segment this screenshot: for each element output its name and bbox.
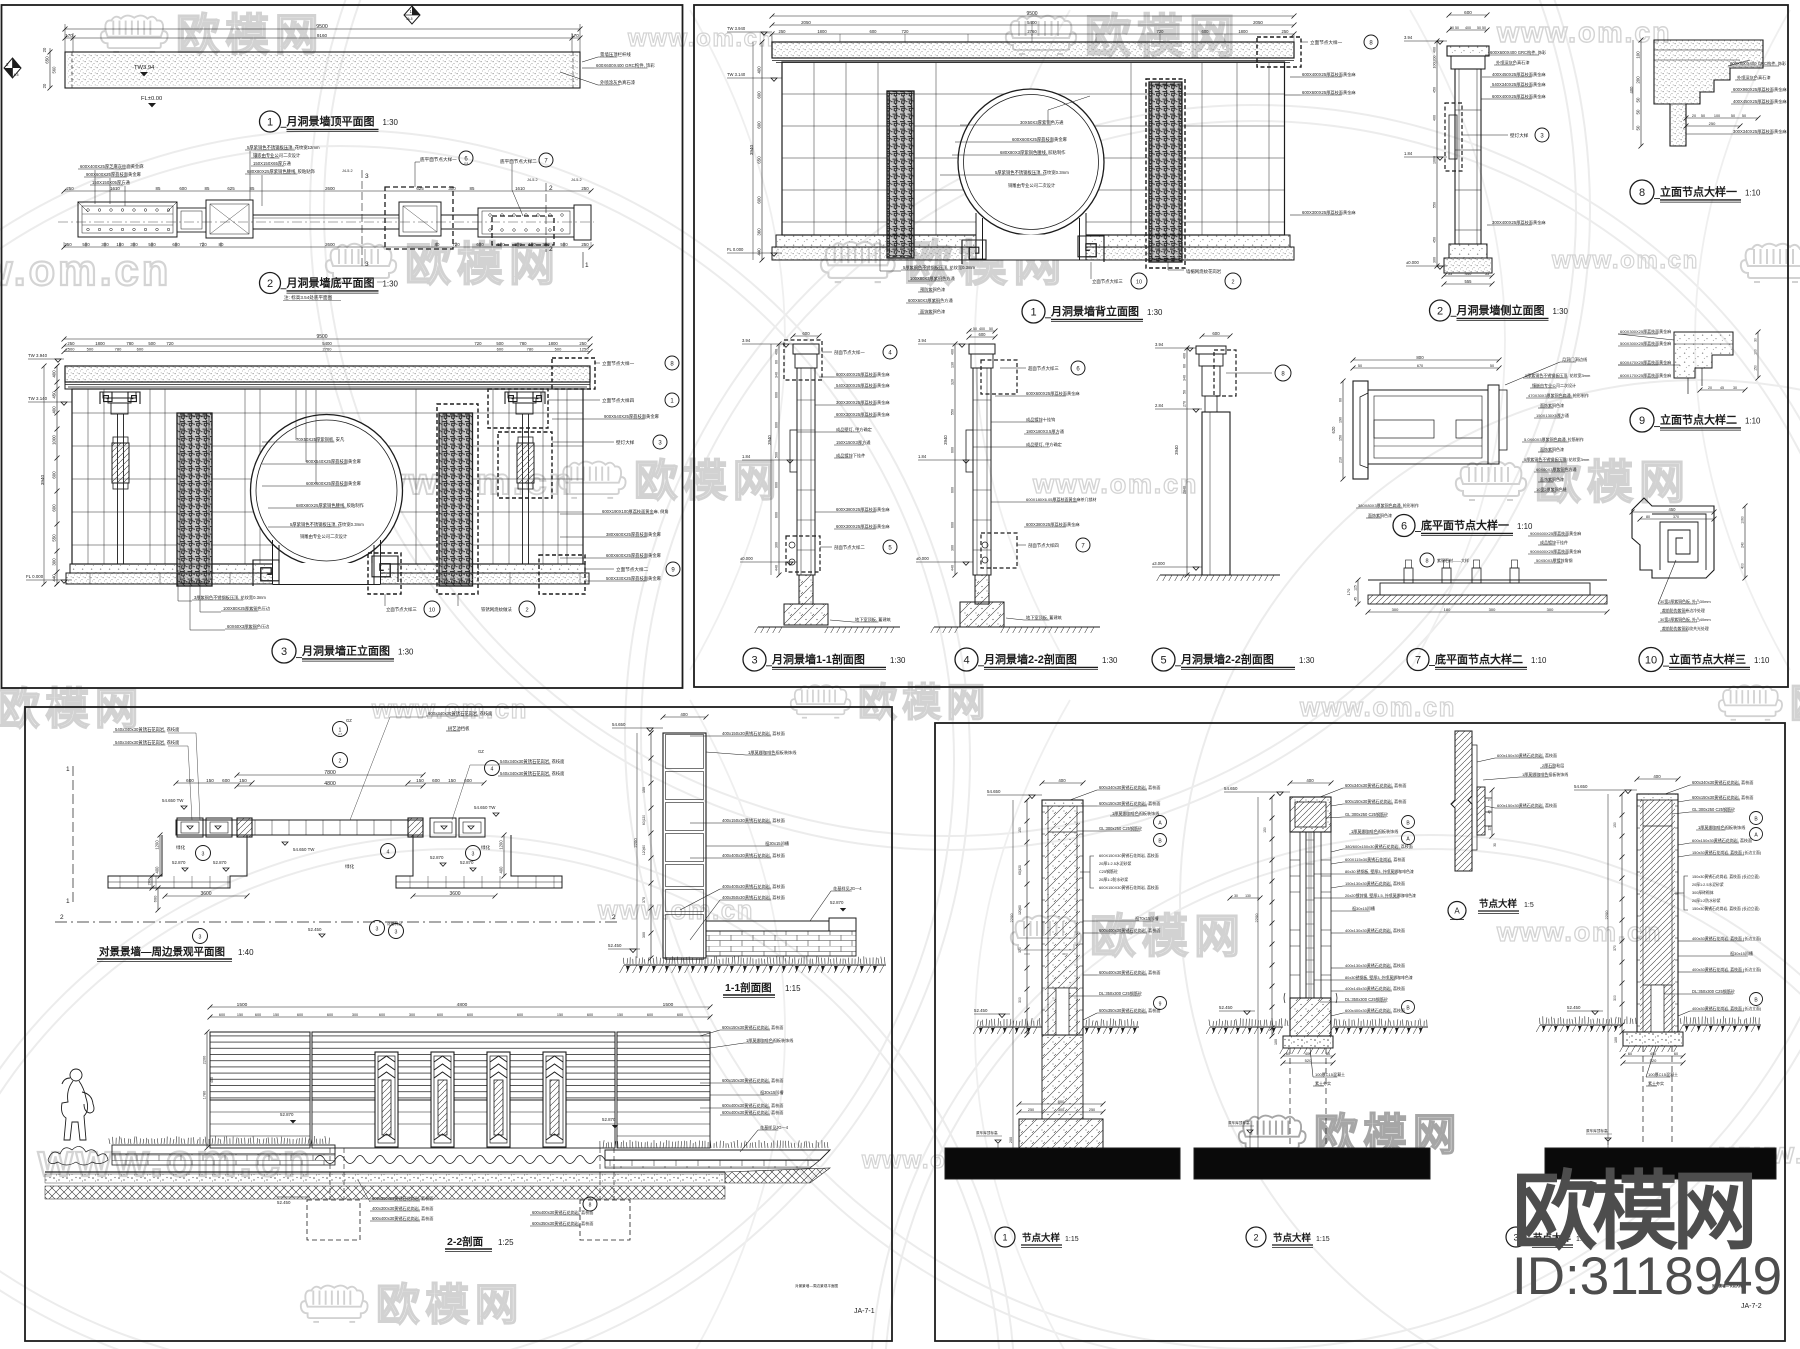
back elevation moon gate xyxy=(976,210,1086,238)
svg-text:300: 300 xyxy=(775,542,779,548)
section 5 left dims xyxy=(1186,348,1188,575)
svg-text:670: 670 xyxy=(1417,364,1423,368)
svg-text:1: 1 xyxy=(66,766,70,773)
svg-text:600: 600 xyxy=(497,346,504,351)
section 4 column xyxy=(969,344,995,354)
svg-text:600: 600 xyxy=(432,778,440,783)
svg-text:400: 400 xyxy=(1306,778,1314,783)
detail 1 left dims xyxy=(1026,800,1028,1035)
svg-text:2: 2 xyxy=(1232,280,1235,286)
detail 2 pad dims xyxy=(1283,1055,1333,1057)
svg-text:600: 600 xyxy=(297,1013,303,1017)
front elevation detail box 2 around right fretwork xyxy=(437,404,478,594)
svg-text:10: 10 xyxy=(1136,280,1142,286)
svg-text:A-5: A-5 xyxy=(14,73,19,77)
svg-text:50: 50 xyxy=(1490,364,1494,368)
svg-text:50: 50 xyxy=(1482,26,1486,30)
svg-text:400x30黄锈石花岗岩, 荔枝面 (长边立面): 400x30黄锈石花岗岩, 荔枝面 (长边立面) xyxy=(1692,967,1762,972)
svg-text:1.84: 1.84 xyxy=(918,454,927,459)
svg-text:立面节点大样三: 立面节点大样三 xyxy=(1092,278,1123,285)
detail 2 steel post xyxy=(1305,832,1307,998)
site plan section cut 2 xyxy=(55,921,620,923)
svg-text:600: 600 xyxy=(437,1013,443,1017)
svg-text:440: 440 xyxy=(52,574,57,582)
svg-text:180: 180 xyxy=(528,242,536,247)
svg-text:80: 80 xyxy=(219,242,224,247)
svg-text:铜雕由专业公司二次设计: 铜雕由专业公司二次设计 xyxy=(1008,182,1056,189)
front elevation base xyxy=(70,564,585,573)
svg-text:30: 30 xyxy=(1493,843,1497,847)
svg-text:300: 300 xyxy=(1489,607,1496,612)
svg-text:GL:300x250 C25钢筋砼: GL:300x250 C25钢筋砼 xyxy=(1099,825,1142,831)
svg-text:180: 180 xyxy=(1444,607,1451,612)
pilaster right shaft xyxy=(522,414,524,564)
moon gate greek key left xyxy=(253,560,279,586)
svg-text:300: 300 xyxy=(1433,257,1437,263)
bottom plan centerline xyxy=(58,221,594,223)
svg-text:150: 150 xyxy=(206,778,214,783)
svg-text:2: 2 xyxy=(60,914,64,921)
svg-text:400: 400 xyxy=(1741,563,1745,569)
svg-text:340: 340 xyxy=(775,372,779,378)
svg-text:120|60: 120|60 xyxy=(642,845,646,855)
side elevation shaft xyxy=(1455,69,1481,244)
svg-text:7: 7 xyxy=(1415,654,1421,666)
svg-text:20厚1:2防水砂浆: 20厚1:2防水砂浆 xyxy=(1099,877,1128,882)
bottom plan right module xyxy=(478,208,574,237)
section 2-2 wall slats upper xyxy=(210,1032,310,1100)
svg-text:300: 300 xyxy=(1392,607,1399,612)
svg-text:月洞景墙正立面图: 月洞景墙正立面图 xyxy=(301,644,390,658)
svg-text:8: 8 xyxy=(1639,187,1645,199)
svg-text:780: 780 xyxy=(115,346,122,351)
front elevation cap xyxy=(65,366,590,382)
svg-text:600x400x30黄锈石花岗岩, 荔枝面: 600x400x30黄锈石花岗岩, 荔枝面 xyxy=(722,1109,783,1115)
detail A wall fragment xyxy=(1451,731,1472,871)
svg-text:250: 250 xyxy=(64,242,72,247)
site plan GZ post left xyxy=(237,818,252,837)
svg-text:450: 450 xyxy=(1669,507,1677,512)
svg-text:130: 130 xyxy=(1245,894,1251,898)
svg-text:1000: 1000 xyxy=(52,435,57,445)
section 5 dashed box xyxy=(1214,350,1236,396)
svg-text:1厚莫娜咖啡色祖板装饰线: 1厚莫娜咖啡色祖板装饰线 xyxy=(1351,828,1398,834)
svg-text:150: 150 xyxy=(237,1013,243,1017)
detail 3 column xyxy=(1637,794,1678,1032)
svg-text:600: 600 xyxy=(870,29,878,34)
side elevation column cap xyxy=(1447,46,1489,56)
detail 3 footing pad xyxy=(1623,1032,1683,1046)
svg-text:30宽2厚紫铜色板, 外凸30mm: 30宽2厚紫铜色板, 外凸30mm xyxy=(1660,599,1711,604)
svg-text:150: 150 xyxy=(416,778,424,783)
svg-text:www.om.cn: www.om.cn xyxy=(1551,247,1699,274)
detail 3 left dims xyxy=(1621,794,1623,1032)
svg-text:600: 600 xyxy=(137,346,144,351)
svg-text:立面节点大样三: 立面节点大样三 xyxy=(386,606,417,613)
svg-text:1:15: 1:15 xyxy=(1065,1236,1079,1243)
svg-text:150x30黄锈石花岗岩, 荔枝面 (长边立面): 150x30黄锈石花岗岩, 荔枝面 (长边立面) xyxy=(1692,906,1760,911)
detail 2 mid dims xyxy=(1230,897,1260,899)
svg-text:52.450: 52.450 xyxy=(308,927,322,932)
svg-text:52.870: 52.870 xyxy=(280,1112,294,1117)
svg-text:3: 3 xyxy=(199,935,202,941)
svg-text:600x350x30黄锈石花岗岩, 荔枝面: 600x350x30黄锈石花岗岩, 荔枝面 xyxy=(532,1220,593,1226)
bottom plan wall line a xyxy=(253,214,399,216)
svg-text:100: 100 xyxy=(1274,1039,1278,1045)
svg-text:30宽2厚紫铜色板, 外凸40mm: 30宽2厚紫铜色板, 外凸40mm xyxy=(1660,617,1711,622)
svg-text:60: 60 xyxy=(1326,1052,1330,1056)
section 4 lamp xyxy=(966,430,973,472)
svg-text:1: 1 xyxy=(1002,1233,1007,1243)
svg-text:270: 270 xyxy=(1183,401,1187,407)
site plan ref circle mid xyxy=(370,921,385,936)
svg-text:600: 600 xyxy=(951,487,955,493)
svg-text:500: 500 xyxy=(82,242,90,247)
svg-text:3.94: 3.94 xyxy=(1404,35,1413,40)
svg-text:600x400x30黄锈石花岗岩, 荔枝面: 600x400x30黄锈石花岗岩, 荔枝面 xyxy=(1345,1007,1405,1013)
bottom plan wall line b xyxy=(441,214,478,216)
svg-text:DL:350x300 C25钢筋砼: DL:350x300 C25钢筋砼 xyxy=(1345,996,1388,1002)
svg-text:www.om.cn: www.om.cn xyxy=(1299,694,1456,722)
back elevation greek key left xyxy=(962,240,986,264)
svg-text:立面节点大样一: 立面节点大样一 xyxy=(1310,39,1343,46)
svg-text:1200: 1200 xyxy=(499,840,504,850)
svg-text:150x30黄锈石花岗岩, 荔枝面 (长边立面): 150x30黄锈石花岗岩, 荔枝面 (长边立面) xyxy=(1692,850,1762,855)
section 2-2 planter left xyxy=(109,1136,330,1144)
svg-text:120: 120 xyxy=(1488,825,1492,831)
section 2-2 planter right xyxy=(600,1140,828,1148)
svg-text:www.om.cn: www.om.cn xyxy=(1496,17,1671,49)
svg-text:55: 55 xyxy=(1485,271,1490,276)
svg-text:400x30黄锈石花岗岩, 荔枝面 (长边立面): 400x30黄锈石花岗岩, 荔枝面 (长边立面) xyxy=(1692,936,1762,941)
svg-text:600: 600 xyxy=(775,482,779,488)
svg-text:600x150x30黄锈石花岗岩, 荔枝面: 600x150x30黄锈石花岗岩, 荔枝面 xyxy=(1497,752,1557,758)
svg-text:面饰紫铜色漆: 面饰紫铜色漆 xyxy=(1540,446,1564,452)
detail 2 ground right xyxy=(1330,1018,1427,1026)
front elevation left dims xyxy=(56,366,58,584)
svg-text:3: 3 xyxy=(365,173,369,180)
svg-text:50: 50 xyxy=(1742,114,1746,118)
svg-text:2: 2 xyxy=(1253,1233,1258,1243)
svg-text:底平面节点大样二: 底平面节点大样二 xyxy=(1435,652,1523,666)
svg-text:素土夯实: 素土夯实 xyxy=(1315,1080,1331,1086)
bottom plan bottom dims xyxy=(64,246,591,248)
side elevation base xyxy=(1449,244,1487,258)
svg-text:340: 340 xyxy=(1183,375,1187,381)
svg-text:300厚砖砌体: 300厚砖砌体 xyxy=(1692,890,1714,895)
svg-text:250: 250 xyxy=(67,341,75,346)
svg-text:400: 400 xyxy=(951,349,955,355)
top plan dim 9160 xyxy=(65,37,580,39)
section 5 column xyxy=(1202,412,1230,575)
svg-text:2: 2 xyxy=(1437,305,1443,317)
svg-text:TW 3.940: TW 3.940 xyxy=(727,26,746,31)
svg-text:月洞景墙2-2剖面图: 月洞景墙2-2剖面图 xyxy=(983,652,1077,666)
svg-text:400: 400 xyxy=(52,370,57,378)
svg-text:320: 320 xyxy=(951,379,955,385)
svg-text:600: 600 xyxy=(467,1013,473,1017)
detail 1 ground left xyxy=(977,1018,1040,1026)
detail 6 left dims xyxy=(1342,381,1344,479)
svg-text:600X150X30黄锈石花岗岩, 荔枝面: 600X150X30黄锈石花岗岩, 荔枝面 xyxy=(1099,853,1159,858)
svg-text:555: 555 xyxy=(1465,279,1473,284)
svg-text:450: 450 xyxy=(1433,237,1437,243)
section 5 top assembly xyxy=(1196,346,1226,354)
svg-text:对景景墙—周边景观平面图: 对景景墙—周边景观平面图 xyxy=(795,1283,839,1288)
detail 8 left dims xyxy=(1640,40,1642,146)
svg-text:铜雕由专业公司二次设计: 铜雕由专业公司二次设计 xyxy=(300,533,348,540)
svg-text:600x150x30黄锈石花岗岩, 荔枝面: 600x150x30黄锈石花岗岩, 荔枝面 xyxy=(722,1077,783,1083)
svg-text:100厚C15混凝土: 100厚C15混凝土 xyxy=(1315,1071,1345,1077)
svg-text:620: 620 xyxy=(1331,426,1336,434)
svg-text:600: 600 xyxy=(951,447,955,453)
svg-text:52.870: 52.870 xyxy=(172,860,186,865)
pilaster right bracket xyxy=(508,392,541,398)
svg-text:2200: 2200 xyxy=(203,1056,207,1064)
svg-text:1800: 1800 xyxy=(95,341,105,346)
svg-text:150: 150 xyxy=(617,1013,623,1017)
svg-text:1: 1 xyxy=(1030,306,1036,318)
svg-text:400x130x30黄锈石花岗岩, 荔枝面: 400x130x30黄锈石花岗岩, 荔枝面 xyxy=(1345,962,1405,968)
svg-text:FL 0.000: FL 0.000 xyxy=(26,574,44,579)
svg-text:400: 400 xyxy=(1058,778,1066,783)
svg-text:780: 780 xyxy=(527,346,534,351)
svg-text:52.870: 52.870 xyxy=(602,1117,616,1122)
svg-text:190: 190 xyxy=(1339,417,1343,423)
svg-text:150: 150 xyxy=(273,1013,279,1017)
detail 1 ground bar xyxy=(945,1148,1180,1179)
svg-text:50: 50 xyxy=(1731,114,1735,118)
svg-text:1:30: 1:30 xyxy=(383,279,399,288)
svg-text:52.870: 52.870 xyxy=(460,860,474,865)
detail 2 top dim xyxy=(1290,782,1331,784)
svg-text:60: 60 xyxy=(775,360,779,364)
watermark logo row4 mid xyxy=(791,685,851,718)
title section 3 xyxy=(743,648,766,671)
detail 3 dashed projection xyxy=(1642,1046,1644,1145)
site plan right planters xyxy=(430,818,456,837)
svg-text:240: 240 xyxy=(1741,542,1745,548)
svg-text:600x350x30黄锈石花岗岩, 荔枝面: 600x350x30黄锈石花岗岩, 荔枝面 xyxy=(372,1195,433,1201)
svg-text:250: 250 xyxy=(581,186,589,191)
svg-text:3600: 3600 xyxy=(449,891,460,897)
detail 2 side slats xyxy=(1290,832,1300,998)
svg-text:100: 100 xyxy=(1714,114,1720,118)
watermark logo row1 left xyxy=(101,16,168,52)
svg-text:500: 500 xyxy=(87,346,94,351)
svg-text:300: 300 xyxy=(130,242,138,247)
svg-text:80: 80 xyxy=(1646,515,1650,519)
svg-text:150: 150 xyxy=(1754,365,1758,371)
svg-text:600x400x30黄锈石花岗岩, 荔枝面: 600x400x30黄锈石花岗岩, 荔枝面 xyxy=(532,1209,593,1215)
svg-text:1200: 1200 xyxy=(155,840,160,850)
svg-text:400: 400 xyxy=(1433,115,1437,121)
svg-text:250: 250 xyxy=(779,29,787,34)
svg-text:450: 450 xyxy=(1433,87,1437,93)
svg-text:对景景墙—周边景观平面图: 对景景墙—周边景观平面图 xyxy=(99,945,225,958)
detail 2 dashed projection xyxy=(1289,1048,1291,1145)
site plan top dims xyxy=(237,774,423,776)
svg-text:45: 45 xyxy=(1720,386,1724,390)
svg-text:20: 20 xyxy=(1708,386,1712,390)
svg-text:20厚1:2.5水泥砂浆: 20厚1:2.5水泥砂浆 xyxy=(1692,882,1724,887)
svg-text:4800: 4800 xyxy=(457,1002,468,1008)
svg-text:镶嵌由专业公司二次设计: 镶嵌由专业公司二次设计 xyxy=(1532,382,1576,388)
svg-text:550: 550 xyxy=(1433,202,1437,208)
svg-text:TW3.94: TW3.94 xyxy=(134,65,155,71)
svg-text:600: 600 xyxy=(802,331,810,336)
detail 9 dims xyxy=(1700,389,1745,391)
watermark logo row3 right xyxy=(1456,462,1526,500)
svg-text:500: 500 xyxy=(497,242,505,247)
svg-text:600x340x30黄锈石花岗岩, 荔枝面: 600x340x30黄锈石花岗岩, 荔枝面 xyxy=(1692,779,1753,785)
title detail 8 xyxy=(1630,180,1654,204)
section 2-2 left dims xyxy=(206,1032,208,1148)
svg-text:600: 600 xyxy=(153,895,158,902)
svg-text:±0.000: ±0.000 xyxy=(916,556,929,561)
svg-text:2760: 2760 xyxy=(1027,29,1037,34)
detail 6 drawing xyxy=(1353,381,1368,479)
detail 2 ground bar xyxy=(1194,1148,1430,1179)
svg-text:素土夯实: 素土夯实 xyxy=(1648,1080,1664,1086)
svg-text:FL 0.000: FL 0.000 xyxy=(727,247,744,252)
section 2-2 ground line xyxy=(45,1171,725,1173)
svg-text:2050: 2050 xyxy=(1253,20,1263,25)
bottom plan section mark 1 xyxy=(582,252,584,268)
svg-text:底平面节点大样二: 底平面节点大样二 xyxy=(500,158,537,165)
svg-text:10宽2厚紫铜色缝: 10宽2厚紫铜色缝 xyxy=(1536,486,1567,492)
section 3 bottom dashed box xyxy=(786,536,820,572)
front elevation detail box 8 xyxy=(552,358,595,389)
section 4 ground xyxy=(934,626,1100,628)
svg-text:720: 720 xyxy=(902,29,910,34)
svg-text:A: A xyxy=(1454,907,1460,916)
svg-text:600X150X30黄锈石花岗岩, 荔枝面: 600X150X30黄锈石花岗岩, 荔枝面 xyxy=(1099,885,1159,890)
svg-text:2: 2 xyxy=(525,608,528,614)
svg-text:250: 250 xyxy=(1709,121,1716,126)
watermark logo row2 a xyxy=(326,244,396,282)
front elevation wall joints xyxy=(72,389,583,564)
site plan side dims xyxy=(159,835,161,876)
moon gate opening xyxy=(273,520,381,564)
front elevation detail box 3 xyxy=(498,432,552,498)
title section 5 xyxy=(1152,648,1175,671)
svg-text:45: 45 xyxy=(1354,597,1358,601)
svg-text:4: 4 xyxy=(387,850,390,856)
svg-text:200: 200 xyxy=(1009,1137,1013,1143)
svg-text:www.om.cn: www.om.cn xyxy=(627,25,775,52)
svg-text:原车库顶标高: 原车库顶标高 xyxy=(1586,1128,1608,1133)
watermark logo row6 panel4 dark xyxy=(1239,1116,1306,1152)
top plan left dims xyxy=(49,52,51,88)
svg-text:ID:3118949: ID:3118949 xyxy=(1512,1247,1782,1306)
svg-text:400: 400 xyxy=(1465,26,1471,30)
back elevation cap xyxy=(772,42,1294,58)
svg-text:3.94: 3.94 xyxy=(918,338,927,343)
svg-text:9160: 9160 xyxy=(317,33,328,38)
svg-text:5厚紫铜色不锈钢板压顶, 花纹宽3mm: 5厚紫铜色不锈钢板压顶, 花纹宽3mm xyxy=(1524,456,1590,462)
section 3 top dim xyxy=(793,335,819,337)
svg-text:60: 60 xyxy=(1674,1052,1678,1056)
detail 10 greek key plan xyxy=(1632,498,1714,578)
moon gate greek key right xyxy=(372,556,398,582)
section 1-1 left dims xyxy=(650,733,652,958)
side elevation bottom dims xyxy=(1444,275,1492,277)
svg-text:1厚莫娜咖啡色祖板装饰线: 1厚莫娜咖啡色祖板装饰线 xyxy=(746,1037,793,1043)
svg-text:3: 3 xyxy=(376,927,379,933)
svg-text:600x400x30黄锈石花岗岩, 荔枝面: 600x400x30黄锈石花岗岩, 荔枝面 xyxy=(722,1102,783,1108)
svg-text:GL:300x250 C25钢筋砼: GL:300x250 C25钢筋砼 xyxy=(1345,811,1388,817)
svg-text:成品镀锌干挂件: 成品镀锌干挂件 xyxy=(1540,539,1568,545)
svg-text:节点大样: 节点大样 xyxy=(1479,898,1518,910)
site plan left wing planter xyxy=(108,835,247,888)
svg-text:绿化: 绿化 xyxy=(176,844,186,851)
svg-text:600x150x30黄锈石花岗岩, 荔枝面: 600x150x30黄锈石花岗岩, 荔枝面 xyxy=(1099,800,1160,806)
svg-text:600: 600 xyxy=(517,1013,523,1017)
svg-text:4800: 4800 xyxy=(324,781,336,787)
svg-text:60|120: 60|120 xyxy=(1018,865,1022,875)
svg-text:3.94: 3.94 xyxy=(742,338,751,343)
svg-text:2600: 2600 xyxy=(325,186,335,191)
title detail A xyxy=(1448,902,1466,920)
svg-text:150: 150 xyxy=(557,1013,563,1017)
svg-text:500: 500 xyxy=(496,341,504,346)
svg-text:1500: 1500 xyxy=(663,1002,674,1008)
svg-text:600: 600 xyxy=(1464,10,1472,15)
svg-text:1610: 1610 xyxy=(515,186,525,191)
back elevation wall joints xyxy=(782,62,1284,235)
svg-text:2840: 2840 xyxy=(1183,486,1187,494)
svg-text:壁灯大样: 壁灯大样 xyxy=(1510,132,1529,139)
svg-text:600x400x30黄锈石花岗岩, 荔枝面: 600x400x30黄锈石花岗岩, 荔枝面 xyxy=(1099,927,1160,933)
svg-text:650: 650 xyxy=(757,156,762,164)
svg-text:1:10: 1:10 xyxy=(1517,522,1533,531)
svg-text:60: 60 xyxy=(1339,398,1343,402)
svg-text:1:5: 1:5 xyxy=(1524,902,1534,909)
svg-text:1780: 1780 xyxy=(203,1091,207,1099)
svg-text:300: 300 xyxy=(409,1013,415,1017)
svg-text:5: 5 xyxy=(1488,799,1492,801)
svg-text:3: 3 xyxy=(202,852,205,858)
side elevation lamp dashed box xyxy=(1445,103,1462,171)
svg-text:20: 20 xyxy=(42,83,47,88)
svg-text:100|200: 100|200 xyxy=(1433,56,1437,69)
svg-text:20x20镀锌钢, 壁厚1.5, 外喷莫娜咖啡色漆: 20x20镀锌钢, 壁厚1.5, 外喷莫娜咖啡色漆 xyxy=(1345,893,1416,898)
svg-text:紫铜石材——大样: 紫铜石材——大样 xyxy=(1437,557,1469,563)
section 1-1 ground xyxy=(623,956,885,964)
svg-text:440: 440 xyxy=(775,565,779,571)
front elevation top dims xyxy=(64,338,590,340)
svg-text:46: 46 xyxy=(1488,810,1492,814)
svg-text:30: 30 xyxy=(1234,894,1238,898)
svg-text:470X30X3厚紫铜色扁通, 抢形制作: 470X30X3厚紫铜色扁通, 抢形制作 xyxy=(1528,392,1589,398)
svg-text:1610: 1610 xyxy=(110,186,120,191)
svg-text:剖面节点大样二: 剖面节点大样二 xyxy=(834,544,865,551)
svg-text:C25钢筋砼: C25钢筋砼 xyxy=(1099,869,1118,874)
svg-text:J-1: J-1 xyxy=(464,161,468,165)
svg-text:1:30: 1:30 xyxy=(1102,656,1118,665)
svg-text:JA-7-1: JA-7-1 xyxy=(854,1308,875,1315)
svg-text:面饰紫铜色漆: 面饰紫铜色漆 xyxy=(1540,476,1564,482)
svg-text:3: 3 xyxy=(751,654,757,666)
svg-text:170: 170 xyxy=(571,33,579,38)
svg-text:600x150x30黄锈石花岗岩, 荔枝面: 600x150x30黄锈石花岗岩, 荔枝面 xyxy=(1692,794,1753,800)
svg-text:月洞景墙侧立面图: 月洞景墙侧立面图 xyxy=(1456,303,1545,317)
svg-text:300: 300 xyxy=(951,545,955,551)
svg-text:500X300X25厚荔枝面黄金麻: 500X300X25厚荔枝面黄金麻 xyxy=(1620,340,1671,346)
svg-text:绿化: 绿化 xyxy=(481,844,491,851)
svg-text:1:10: 1:10 xyxy=(1745,188,1761,197)
